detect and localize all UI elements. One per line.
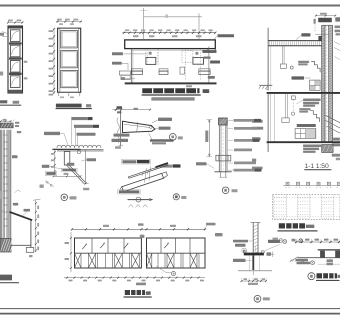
svg-text:1-1 1:50: 1-1 1:50 [305,163,329,170]
